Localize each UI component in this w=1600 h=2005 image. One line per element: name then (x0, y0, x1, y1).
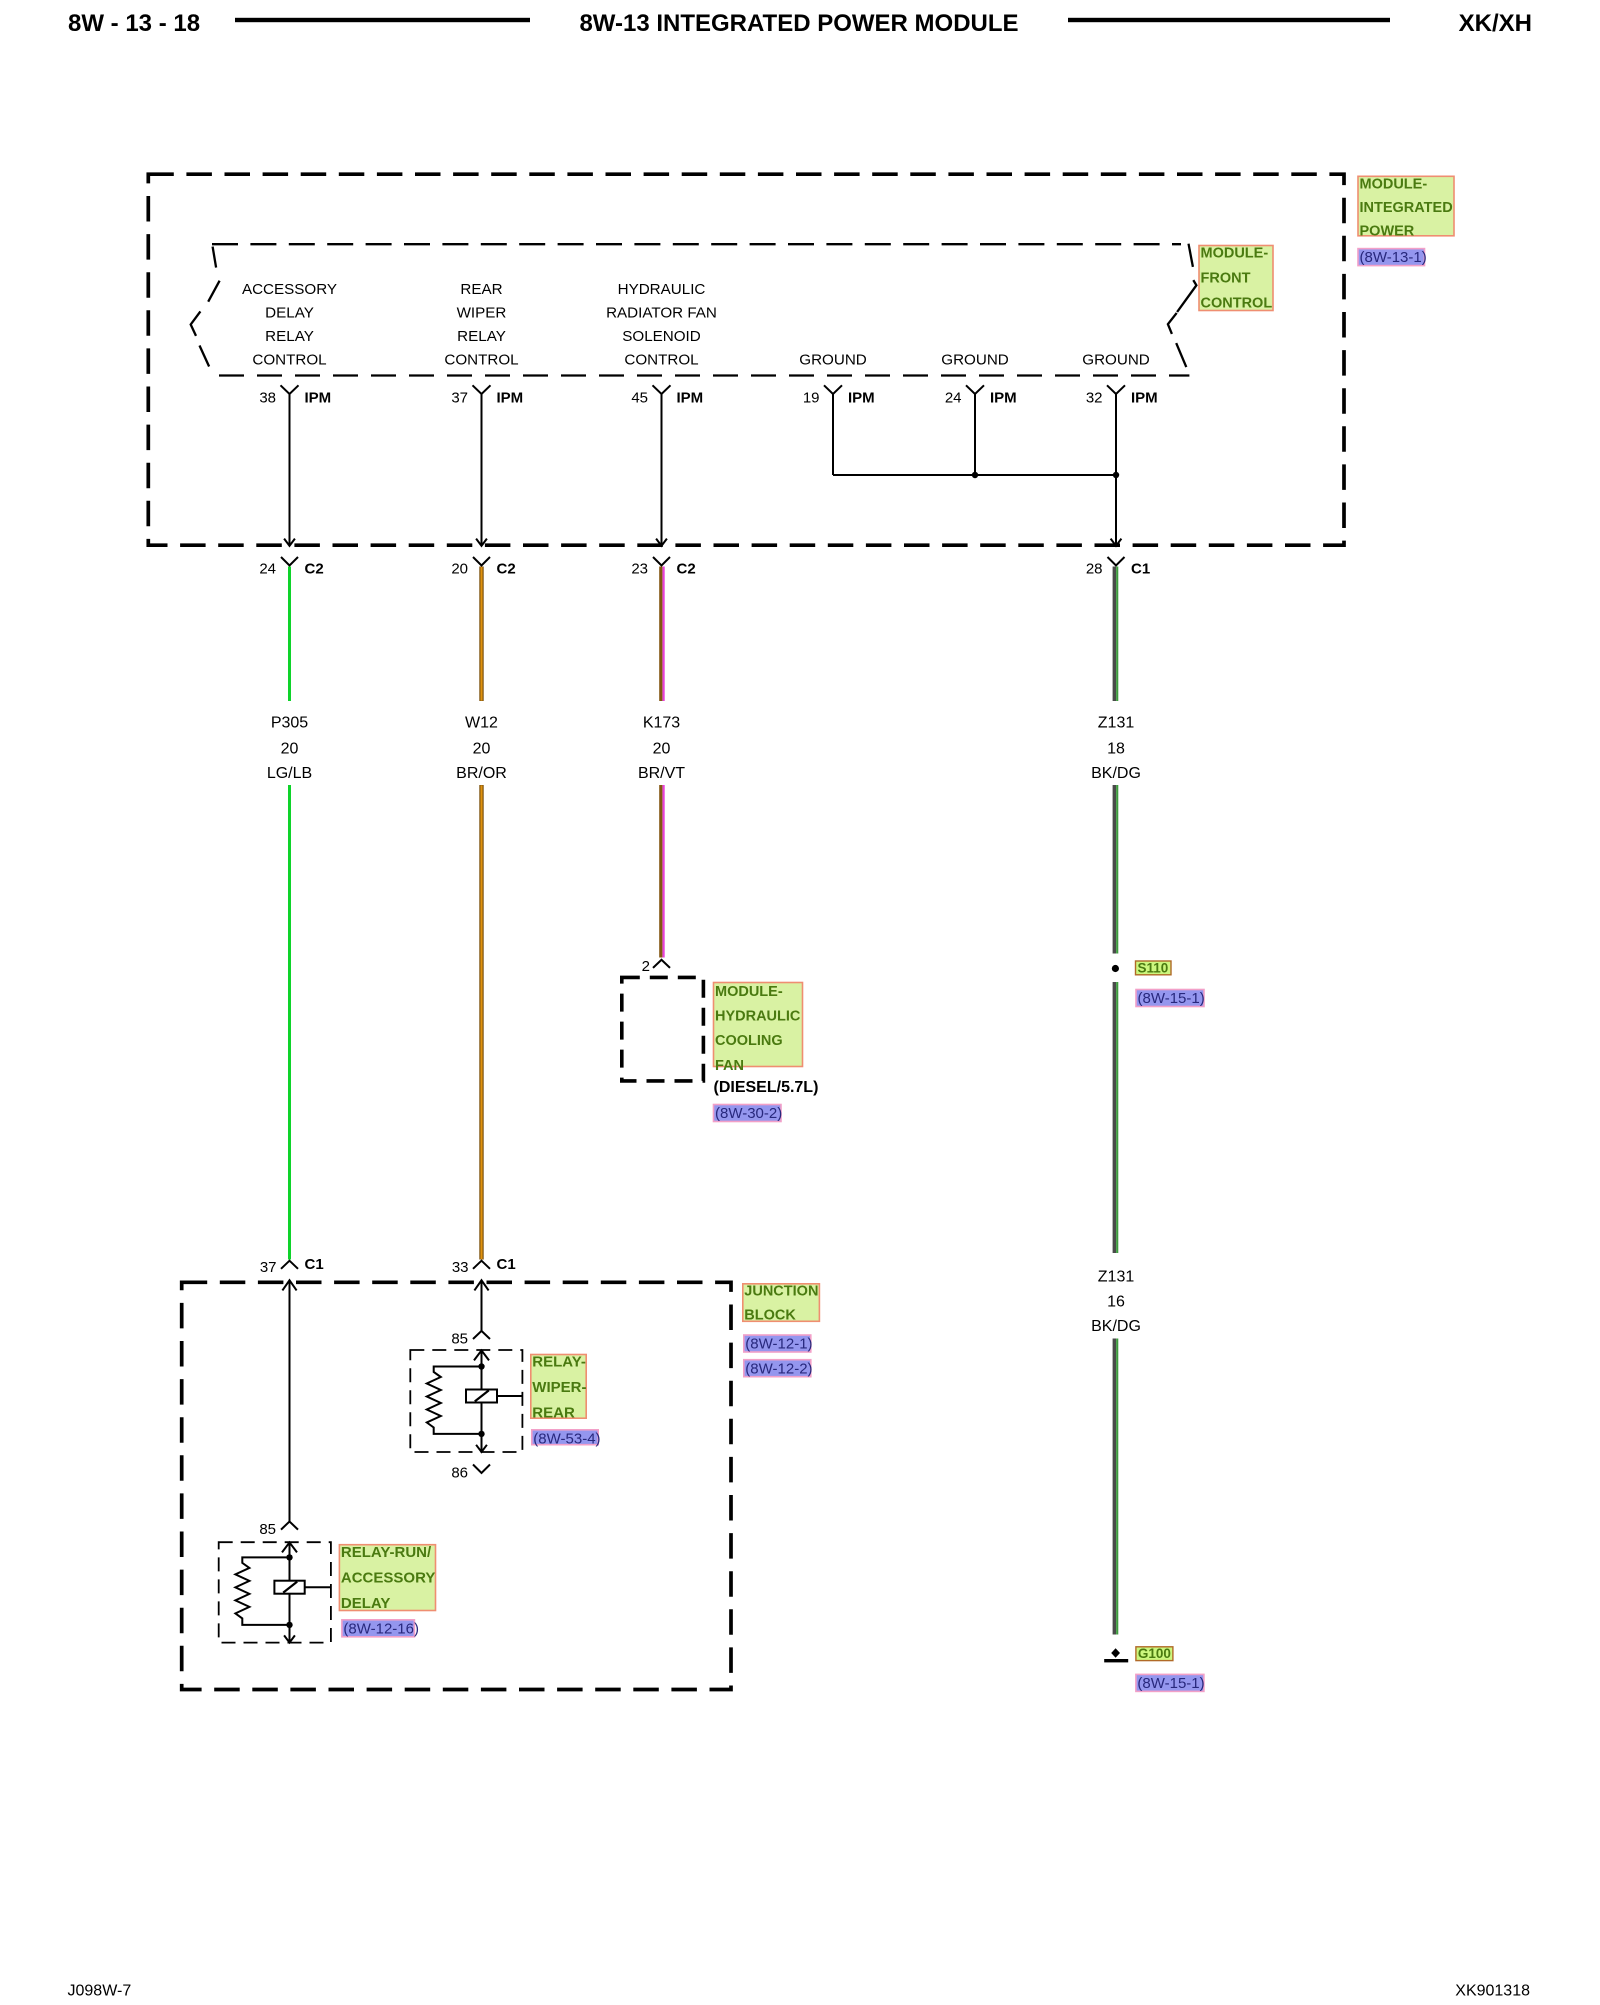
connector pin 19 IPM (803, 385, 875, 406)
svg-text:86: 86 (451, 1465, 468, 1482)
svg-text:J098W-7: J098W-7 (68, 1983, 132, 2000)
svg-text:24: 24 (259, 561, 276, 578)
svg-text:S110: S110 (1138, 960, 1169, 975)
module front control boundary left torn edge (191, 247, 220, 367)
svg-text:GROUND: GROUND (1082, 352, 1150, 369)
svg-text:HYDRAULIC: HYDRAULIC (715, 1009, 801, 1025)
header page number (68, 10, 200, 37)
header page code (1459, 10, 1532, 37)
svg-text:(8W-13-1): (8W-13-1) (1360, 249, 1427, 266)
label wire Z131 16 BK/DG (1091, 1269, 1141, 1336)
svg-text:HYDRAULIC: HYDRAULIC (618, 281, 706, 298)
junction dot ground bus pin 24 (972, 472, 978, 478)
svg-text:IPM: IPM (990, 390, 1017, 407)
wire ground pin 32 drop (1111, 394, 1122, 546)
relay K1 node 1 (478, 1363, 484, 1369)
wire W12 upper segment (479, 567, 483, 702)
label G100 (1136, 1646, 1173, 1661)
label ground 2 (941, 352, 1009, 369)
svg-text:CONTROL: CONTROL (444, 352, 518, 369)
relay K1 wiper-rear dashed box (410, 1350, 522, 1452)
wire ground pin 19 drop (832, 394, 834, 475)
svg-text:XK901318: XK901318 (1455, 1983, 1530, 2000)
relay K2 coil (resistor) (235, 1557, 289, 1625)
svg-text:8W-13 INTEGRATED POWER MODULE: 8W-13 INTEGRATED POWER MODULE (579, 10, 1018, 37)
svg-text:ACCESSORY: ACCESSORY (341, 1570, 435, 1587)
svg-text:(8W-12-16): (8W-12-16) (343, 1620, 419, 1637)
label junction block (743, 1284, 820, 1324)
svg-text:G100: G100 (1138, 1646, 1171, 1661)
label ref 8W-12-16 (342, 1620, 419, 1638)
header rule right (1068, 18, 1390, 22)
connector pin 24 C2 (259, 557, 323, 578)
label S110 (1136, 960, 1172, 975)
relay K1 coil feed arrow (474, 1350, 489, 1366)
svg-text:INTEGRATED: INTEGRATED (1360, 200, 1453, 216)
svg-text:C1: C1 (1131, 561, 1150, 578)
wire Z131 segment 1 (1114, 567, 1117, 702)
connector pin 28 C1 (1086, 557, 1150, 578)
module front control boundary top edge (212, 243, 1181, 245)
relay K2 contact output wire (305, 1586, 331, 1588)
svg-text:Z131: Z131 (1098, 1269, 1135, 1286)
footer part number (1455, 1983, 1530, 2000)
svg-text:C1: C1 (497, 1256, 516, 1273)
svg-text:FRONT: FRONT (1201, 271, 1251, 287)
svg-text:(DIESEL/5.7L): (DIESEL/5.7L) (714, 1079, 819, 1096)
label ref 8W-30-2 (714, 1105, 783, 1123)
svg-text:20: 20 (653, 741, 671, 758)
svg-text:38: 38 (259, 390, 276, 407)
module front control boundary bottom edge (219, 374, 1189, 376)
connector pin 24 IPM (945, 385, 1017, 406)
svg-text:RELAY: RELAY (265, 328, 314, 345)
label module-integrated power (1358, 176, 1454, 239)
label wire W12 20 BR/OR (456, 715, 507, 783)
svg-text:RELAY-RUN/: RELAY-RUN/ (341, 1544, 432, 1561)
junction block dashed outline (182, 1282, 731, 1689)
connector pin 37 C1 junction block (260, 1256, 324, 1276)
svg-text:COOLING: COOLING (715, 1033, 783, 1049)
connector pin 33 C1 junction block (452, 1256, 516, 1276)
svg-text:REAR: REAR (460, 281, 502, 298)
svg-text:IPM: IPM (305, 390, 332, 407)
label ref 8W-15-1 lower (1136, 1674, 1205, 1692)
svg-text:37: 37 (260, 1259, 277, 1276)
svg-text:K173: K173 (643, 715, 680, 732)
svg-text:LG/LB: LG/LB (267, 765, 312, 782)
wire ground bus (833, 474, 1116, 476)
svg-text:C2: C2 (677, 561, 696, 578)
svg-text:24: 24 (945, 390, 962, 407)
relay K2 node 1 (286, 1554, 292, 1560)
wire Z131 segment 2 (1114, 785, 1117, 954)
svg-text:19: 19 (803, 390, 820, 407)
wire rear wiper relay control inside module (476, 394, 487, 546)
wire Z131 segment 3 (1114, 982, 1117, 1253)
svg-text:45: 45 (631, 390, 648, 407)
wire W12 lower segment (479, 785, 483, 1260)
relay K1 contact (466, 1367, 497, 1434)
svg-text:RELAY: RELAY (457, 328, 506, 345)
connector pin 20 C2 (451, 557, 515, 578)
relay K2 node 2 (286, 1622, 292, 1628)
wire hydraulic fan solenoid control inside module (656, 394, 667, 546)
module front control boundary right torn edge (1168, 244, 1197, 367)
svg-text:33: 33 (452, 1259, 469, 1276)
label ref 8W-12-2 (744, 1360, 813, 1378)
svg-text:(8W-15-1): (8W-15-1) (1138, 990, 1205, 1007)
svg-text:8W - 13 - 18: 8W - 13 - 18 (68, 10, 200, 37)
relay K1 contact output wire (497, 1395, 522, 1397)
footer drawing number (68, 1983, 132, 2000)
svg-text:BR/OR: BR/OR (456, 765, 507, 782)
svg-text:DELAY: DELAY (341, 1595, 390, 1612)
svg-text:RELAY-: RELAY- (532, 1354, 586, 1371)
connector pin 2 hydraulic cooling fan (642, 958, 670, 975)
svg-text:SOLENOID: SOLENOID (622, 328, 701, 345)
connector pin 37 IPM (451, 385, 523, 406)
svg-text:28: 28 (1086, 561, 1103, 578)
svg-text:32: 32 (1086, 390, 1103, 407)
label ground 3 (1082, 352, 1150, 369)
svg-text:DELAY: DELAY (265, 305, 314, 322)
connector pin 45 IPM (631, 385, 703, 406)
wire from pin 37 into junction block (282, 1280, 296, 1521)
svg-text:16: 16 (1107, 1294, 1125, 1311)
relay K2 output arrow (284, 1625, 295, 1643)
svg-text:POWER: POWER (1360, 224, 1415, 240)
wire P305 lower segment (288, 785, 291, 1260)
label module-front control (1199, 246, 1273, 312)
svg-text:CONTROL: CONTROL (624, 352, 698, 369)
svg-text:85: 85 (259, 1521, 276, 1538)
svg-text:MODULE-: MODULE- (1360, 176, 1428, 192)
relay K1 coil (resistor) (427, 1367, 482, 1434)
label ref 8W-15-1 upper (1136, 990, 1205, 1008)
svg-text:20: 20 (281, 741, 299, 758)
svg-text:18: 18 (1107, 741, 1125, 758)
svg-text:WIPER-: WIPER- (532, 1379, 586, 1396)
splice S110 dot (1112, 965, 1119, 972)
svg-text:C1: C1 (305, 1256, 324, 1273)
connector pin 23 C2 (631, 557, 695, 578)
label rear wiper relay control (444, 281, 518, 369)
svg-text:ACCESSORY: ACCESSORY (242, 281, 337, 298)
relay K1 node 2 (478, 1431, 484, 1437)
svg-text:CONTROL: CONTROL (252, 352, 326, 369)
svg-text:IPM: IPM (1131, 390, 1158, 407)
wire P305 upper segment (288, 567, 291, 702)
svg-text:BK/DG: BK/DG (1091, 765, 1141, 782)
connector pin 86 relay wiper-rear (451, 1465, 490, 1482)
svg-text:23: 23 (631, 561, 648, 578)
label ref 8W-12-1 (744, 1335, 813, 1353)
relay K1 output arrow (476, 1434, 487, 1452)
connector pin 32 IPM (1086, 385, 1158, 406)
svg-text:(8W-12-2): (8W-12-2) (745, 1360, 812, 1377)
label ground 1 (799, 352, 867, 369)
label hydraulic radiator fan solenoid control (606, 281, 717, 369)
module U1 MODULE-INTEGRATED POWER dashed outline (148, 174, 1344, 545)
ground G100 symbol (1104, 1648, 1128, 1662)
label relay-wiper-rear (531, 1354, 587, 1422)
connector pin 85 relay run-accessory delay (259, 1521, 298, 1538)
svg-text:W12: W12 (465, 715, 498, 732)
label module-hydraulic cooling fan (714, 983, 803, 1074)
relay K2 run-accessory-delay dashed box (219, 1542, 331, 1642)
svg-text:(8W-12-1): (8W-12-1) (745, 1336, 812, 1353)
svg-text:IPM: IPM (677, 390, 704, 407)
svg-text:20: 20 (473, 741, 491, 758)
svg-text:C2: C2 (305, 561, 324, 578)
label accessory delay relay control (242, 281, 337, 369)
wire ground pin 24 drop (974, 394, 976, 475)
relay K2 coil feed arrow (282, 1542, 297, 1557)
svg-text:P305: P305 (271, 715, 308, 732)
label wire P305 20 LG/LB (267, 715, 312, 783)
svg-text:IPM: IPM (497, 390, 524, 407)
label ref 8W-53-4 (532, 1430, 601, 1448)
wire K173 upper segment (661, 567, 664, 702)
svg-text:BLOCK: BLOCK (744, 1307, 796, 1323)
module hydraulic cooling fan dashed box (622, 977, 704, 1081)
header rule left (235, 18, 530, 22)
svg-text:RADIATOR FAN: RADIATOR FAN (606, 305, 717, 322)
svg-text:XK/XH: XK/XH (1459, 10, 1532, 37)
svg-text:IPM: IPM (848, 390, 875, 407)
svg-text:BR/VT: BR/VT (638, 765, 685, 782)
svg-text:C2: C2 (497, 561, 516, 578)
svg-text:Z131: Z131 (1098, 715, 1135, 732)
svg-text:WIPER: WIPER (457, 305, 507, 322)
svg-text:GROUND: GROUND (941, 352, 1009, 369)
wire from pin 33 into junction block (474, 1280, 488, 1331)
svg-text:REAR: REAR (532, 1405, 575, 1422)
svg-text:GROUND: GROUND (799, 352, 867, 369)
wire Z131 segment 4 (1114, 1339, 1117, 1635)
label relay-run accessory delay (339, 1544, 435, 1612)
relay K2 contact (274, 1557, 304, 1625)
svg-text:20: 20 (451, 561, 468, 578)
svg-text:JUNCTION: JUNCTION (744, 1284, 818, 1300)
label wire Z131 18 BK/DG (1091, 715, 1141, 783)
connector pin 38 IPM (259, 385, 331, 406)
svg-text:(8W-30-2): (8W-30-2) (715, 1105, 782, 1122)
label diesel 5.7L (714, 1079, 819, 1096)
svg-text:MODULE-: MODULE- (1201, 246, 1269, 262)
label wire K173 20 BR/VT (638, 715, 685, 783)
svg-text:FAN: FAN (715, 1058, 744, 1074)
svg-text:(8W-15-1): (8W-15-1) (1137, 1675, 1204, 1692)
label ref 8W-13-1 (1358, 249, 1427, 267)
svg-text:MODULE-: MODULE- (715, 984, 783, 1000)
svg-text:(8W-53-4): (8W-53-4) (533, 1430, 600, 1447)
svg-text:37: 37 (451, 390, 468, 407)
svg-text:2: 2 (642, 958, 650, 975)
wire accessory delay relay control inside module (284, 394, 295, 546)
svg-text:BK/DG: BK/DG (1091, 1318, 1141, 1335)
wire K173 lower segment (661, 785, 664, 958)
header title (579, 10, 1018, 37)
connector pin 85 relay wiper-rear (451, 1331, 490, 1348)
svg-text:85: 85 (451, 1331, 468, 1348)
svg-text:CONTROL: CONTROL (1201, 296, 1273, 312)
junction dot ground bus pin 32 (1113, 472, 1119, 478)
